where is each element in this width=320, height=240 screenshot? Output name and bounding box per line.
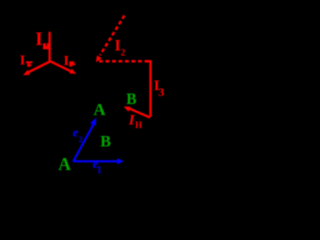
svg-text:1: 1 [97, 165, 102, 176]
svg-text:A: A [58, 154, 71, 174]
svg-text:2: 2 [79, 135, 83, 144]
svg-text:I: I [35, 29, 42, 50]
svg-text:H: H [135, 120, 142, 130]
svg-text:I: I [64, 54, 69, 69]
svg-text:I: I [115, 37, 121, 54]
svg-text:A: A [93, 100, 106, 119]
svg-text:B: B [100, 133, 111, 150]
svg-text:3: 3 [158, 85, 164, 99]
svg-text:I: I [20, 53, 25, 68]
svg-text:2: 2 [121, 47, 126, 57]
svg-text:B: B [126, 91, 136, 108]
